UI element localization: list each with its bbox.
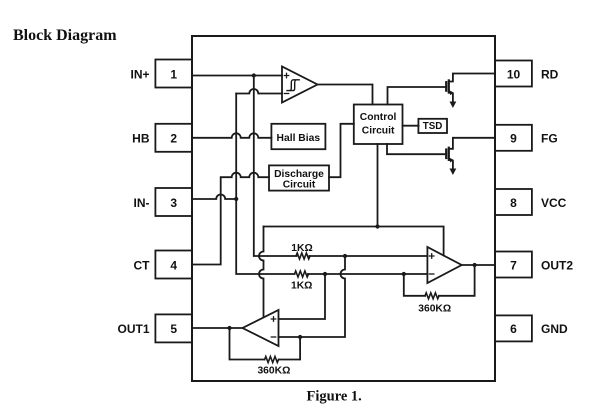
svg-text:5: 5 — [170, 322, 177, 336]
svg-text:3: 3 — [170, 196, 177, 210]
svg-text:2: 2 — [170, 132, 177, 146]
svg-text:Block Diagram: Block Diagram — [13, 27, 117, 44]
svg-text:FG: FG — [541, 132, 558, 146]
svg-text:RD: RD — [541, 67, 559, 81]
svg-text:1KΩ: 1KΩ — [291, 281, 312, 292]
svg-text:6: 6 — [510, 322, 517, 336]
svg-text:10: 10 — [507, 67, 521, 81]
svg-text:Circuit: Circuit — [362, 126, 395, 137]
svg-text:360KΩ: 360KΩ — [418, 304, 451, 315]
svg-text:TSD: TSD — [423, 121, 443, 132]
svg-text:Hall Bias: Hall Bias — [277, 133, 321, 144]
svg-text:360KΩ: 360KΩ — [257, 366, 290, 377]
svg-text:IN+: IN+ — [130, 67, 149, 81]
svg-text:9: 9 — [510, 132, 517, 146]
svg-text:Circuit: Circuit — [283, 180, 316, 191]
svg-text:HB: HB — [132, 132, 150, 146]
svg-text:Figure 1.: Figure 1. — [307, 389, 362, 405]
svg-text:CT: CT — [134, 258, 151, 272]
svg-text:OUT2: OUT2 — [541, 258, 573, 272]
svg-text:8: 8 — [510, 196, 517, 210]
svg-text:7: 7 — [510, 258, 517, 272]
svg-text:1: 1 — [170, 67, 177, 81]
svg-text:Control: Control — [360, 112, 397, 123]
svg-text:IN-: IN- — [134, 196, 150, 210]
svg-text:OUT1: OUT1 — [117, 322, 149, 336]
svg-text:4: 4 — [170, 258, 177, 272]
svg-text:GND: GND — [541, 322, 568, 336]
svg-text:VCC: VCC — [541, 196, 567, 210]
svg-text:1KΩ: 1KΩ — [291, 243, 312, 254]
svg-text:Discharge: Discharge — [274, 169, 324, 180]
